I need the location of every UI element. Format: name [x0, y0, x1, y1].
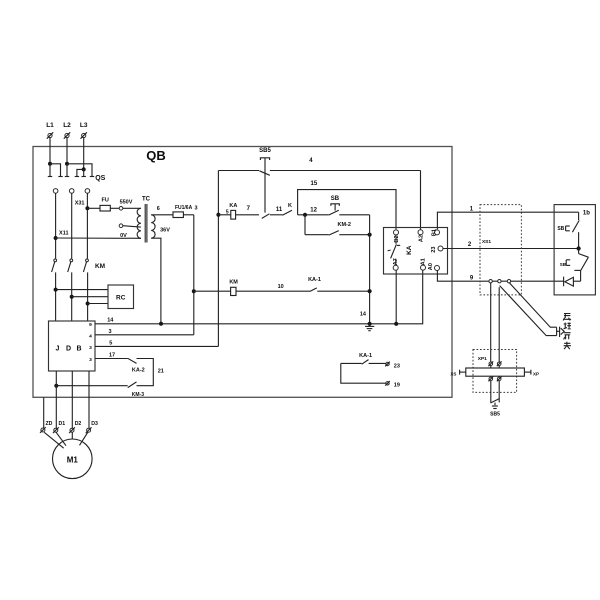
wire 10 [236, 284, 310, 291]
svg-text:10: 10 [278, 284, 284, 290]
wire 5 [95, 341, 218, 347]
motor M1 [53, 439, 93, 479]
contact KM-2 branch [305, 215, 372, 237]
pin B1 [432, 229, 440, 236]
wire 14 bus [95, 270, 423, 323]
svg-text:SB: SB [557, 226, 564, 232]
connector XS1 dashed [480, 205, 521, 295]
node X31 [75, 201, 90, 211]
pushbutton SB5 [259, 148, 271, 218]
terminal ZD [40, 421, 53, 433]
wire motor D3 [88, 371, 90, 428]
svg-text:KA-1: KA-1 [359, 353, 372, 359]
contact K [282, 203, 292, 215]
svg-text:QB: QB [146, 148, 166, 163]
svg-text:L1: L1 [46, 122, 54, 129]
wire motor D1 [55, 371, 57, 428]
svg-text:1b: 1b [583, 211, 590, 217]
svg-text:4: 4 [89, 334, 92, 340]
svg-text:3: 3 [89, 345, 92, 351]
svg-text:6: 6 [157, 206, 160, 212]
svg-text:KA: KA [229, 203, 237, 209]
node RC tap3 [86, 302, 90, 306]
svg-text:SB: SB [560, 262, 567, 267]
svg-text:9: 9 [89, 322, 92, 328]
svg-text:D: D [66, 346, 71, 353]
relay contact KA-2 [56, 358, 164, 387]
svg-text:ZD: ZD [46, 421, 53, 427]
relay contact KA-1 [308, 277, 372, 293]
svg-text:SB5: SB5 [490, 412, 500, 418]
svg-text:M1: M1 [67, 455, 79, 464]
terminal D3 [86, 421, 98, 433]
svg-text:L3: L3 [80, 122, 88, 129]
svg-text:36V: 36V [160, 228, 170, 234]
node A7 bus [394, 322, 398, 326]
node KA feed [216, 213, 220, 217]
svg-text:RC: RC [116, 295, 126, 302]
fuse FU1/6A [173, 205, 198, 218]
svg-text:FU1/6A: FU1/6A [175, 205, 193, 211]
wire phase3 mid [86, 193, 88, 259]
wire 1 [437, 206, 578, 229]
svg-text:14: 14 [107, 317, 114, 323]
svg-text:SB5: SB5 [259, 148, 271, 154]
node 12 [298, 207, 329, 217]
wire ZD to motor [44, 432, 64, 448]
wire phase2 mid [71, 193, 73, 259]
enclosure QB [33, 147, 452, 398]
svg-text:KA-2: KA-2 [132, 368, 145, 374]
svg-text:TC: TC [142, 197, 151, 203]
pendant pin bottom a [488, 376, 493, 381]
contactor coil KM [194, 280, 238, 296]
pin 23 [431, 246, 443, 253]
svg-text:QS: QS [95, 175, 105, 182]
svg-text:KM: KM [229, 280, 238, 286]
terminal 23 [385, 362, 400, 370]
wire 7 [236, 206, 259, 215]
svg-text:17: 17 [109, 353, 115, 359]
pin A7 [393, 258, 399, 270]
protection module JDB [49, 321, 96, 371]
svg-text:KA-1: KA-1 [308, 277, 321, 283]
contactor KM main contacts [52, 259, 105, 272]
svg-text:D1: D1 [59, 421, 66, 427]
svg-text:A0: A0 [428, 263, 434, 270]
svg-text:3: 3 [89, 357, 92, 363]
wire 17 [95, 353, 128, 359]
wire control right riser [369, 215, 371, 324]
svg-text:D3: D3 [91, 421, 98, 427]
pendant riser b [498, 287, 500, 362]
terminal w9-c [507, 280, 510, 283]
pin A1 [421, 258, 427, 270]
wire node3 vertical [193, 215, 195, 291]
ground [365, 324, 374, 331]
svg-text:B2: B2 [394, 235, 400, 242]
wire L3 lead [83, 138, 85, 170]
fuse FU [87, 198, 119, 212]
wire 2 [443, 242, 579, 249]
node D1 tap [54, 384, 58, 388]
wire phase3 lower [87, 272, 89, 321]
selector SB lower in 1b [560, 249, 589, 282]
svg-text:B1: B1 [432, 229, 438, 236]
wire RC lead1 [56, 289, 108, 291]
label hanging-switch (CJK strokes) [563, 314, 571, 350]
wire phase1 mid [55, 193, 57, 259]
svg-text:KA: KA [406, 245, 413, 255]
pendant connector XP1 dashed [473, 350, 517, 393]
pendant pin top a [488, 361, 493, 368]
wire phase1 lower [55, 272, 57, 321]
wire L2 lead [66, 138, 68, 164]
svg-text:550V: 550V [120, 200, 133, 206]
node ground junction [368, 322, 372, 326]
wire motor D2 [71, 371, 73, 428]
svg-text:SB: SB [331, 196, 340, 202]
terminal D1 [53, 421, 65, 433]
node TC-bus [159, 322, 163, 326]
svg-text:X11: X11 [59, 231, 68, 237]
node 2 in 1b [577, 246, 581, 250]
node X11 [54, 231, 69, 241]
terminal L3 [80, 122, 88, 139]
svg-text:A2: A2 [418, 235, 424, 242]
suppressor RC [108, 285, 134, 309]
wire 11 [270, 207, 283, 215]
svg-text:J: J [56, 346, 60, 353]
wire 4 [218, 158, 420, 230]
wire D1 to motor [56, 432, 66, 445]
wire secondary bottom [151, 238, 161, 324]
wire RC lead3 [88, 303, 108, 305]
svg-text:11: 11 [276, 207, 283, 213]
terminal w9-b [498, 280, 501, 283]
svg-text:23: 23 [431, 246, 437, 252]
wire X11 to TC [56, 237, 141, 239]
pushbutton SB [329, 196, 370, 215]
pendant bar [450, 368, 539, 376]
node RC tap2 [70, 295, 74, 299]
connector block KA [384, 228, 448, 275]
terminal D2 [69, 421, 81, 433]
relay aux contact KA-1 lower [341, 353, 386, 383]
relay coil KA [218, 203, 237, 219]
terminal w9-a [489, 280, 492, 283]
wire control riser [217, 171, 219, 347]
terminal L1 [46, 122, 54, 139]
transformer TC [137, 197, 170, 243]
plug symbol [557, 327, 565, 337]
svg-text:KM-2: KM-2 [337, 222, 350, 228]
svg-text:KM-3: KM-3 [132, 392, 144, 398]
svg-text:A1: A1 [421, 258, 427, 265]
cable to pendant [500, 283, 557, 336]
pendant riser a [490, 283, 492, 362]
svg-text:19: 19 [394, 382, 400, 388]
contact internal KA box [388, 235, 401, 265]
wire D2 to motor [71, 432, 73, 439]
pendant pin bottom b [497, 376, 502, 381]
svg-text:XP: XP [533, 371, 539, 376]
svg-text:X31: X31 [75, 201, 85, 207]
tap 0V [119, 224, 141, 239]
svg-text:XS: XS [450, 371, 456, 376]
svg-text:23: 23 [394, 363, 400, 369]
wire 9 [437, 271, 563, 282]
svg-text:3: 3 [108, 329, 111, 335]
station box 1b [554, 205, 595, 295]
pin B2 [394, 230, 400, 243]
tap 550V [119, 200, 141, 211]
svg-text:12: 12 [310, 207, 317, 213]
svg-text:B: B [76, 346, 81, 353]
wire RC lead2 [72, 296, 108, 298]
pin A0 [428, 263, 439, 270]
pushbutton SB upper in 1b [557, 212, 579, 248]
svg-text:15: 15 [311, 181, 318, 187]
svg-text:D2: D2 [75, 421, 82, 427]
disconnect switch QS [48, 162, 106, 193]
svg-text:L2: L2 [63, 122, 71, 129]
pendant pin top b [497, 361, 502, 368]
wire 15 riser [298, 190, 396, 230]
wire secondary top node 6 [151, 206, 173, 215]
svg-text:KM: KM [95, 263, 105, 270]
node RC tap1 [54, 288, 58, 292]
svg-text:K: K [288, 203, 292, 209]
terminal L2 [63, 122, 71, 139]
terminal 19 [385, 381, 400, 388]
svg-text:14: 14 [360, 312, 367, 318]
svg-text:21: 21 [158, 369, 164, 375]
wire phase2 lower [71, 272, 73, 321]
node 3 junction [192, 289, 196, 293]
switch SB5 pendant to ground [490, 381, 500, 418]
svg-text:FU: FU [102, 198, 109, 204]
svg-text:0V: 0V [120, 233, 127, 239]
svg-text:XS1: XS1 [482, 239, 491, 245]
svg-text:3: 3 [194, 206, 197, 212]
wire D3 to motor [80, 432, 88, 445]
svg-text:5: 5 [109, 341, 112, 347]
wire pin A7 riser [395, 271, 397, 324]
pin A2 [418, 230, 424, 242]
svg-text:5: 5 [226, 209, 229, 215]
wire 3 [95, 291, 194, 335]
diode in 1b [564, 277, 574, 287]
svg-text:XP1: XP1 [478, 356, 487, 362]
wire L1 lead [49, 138, 51, 164]
wire motor ZD [43, 397, 45, 428]
